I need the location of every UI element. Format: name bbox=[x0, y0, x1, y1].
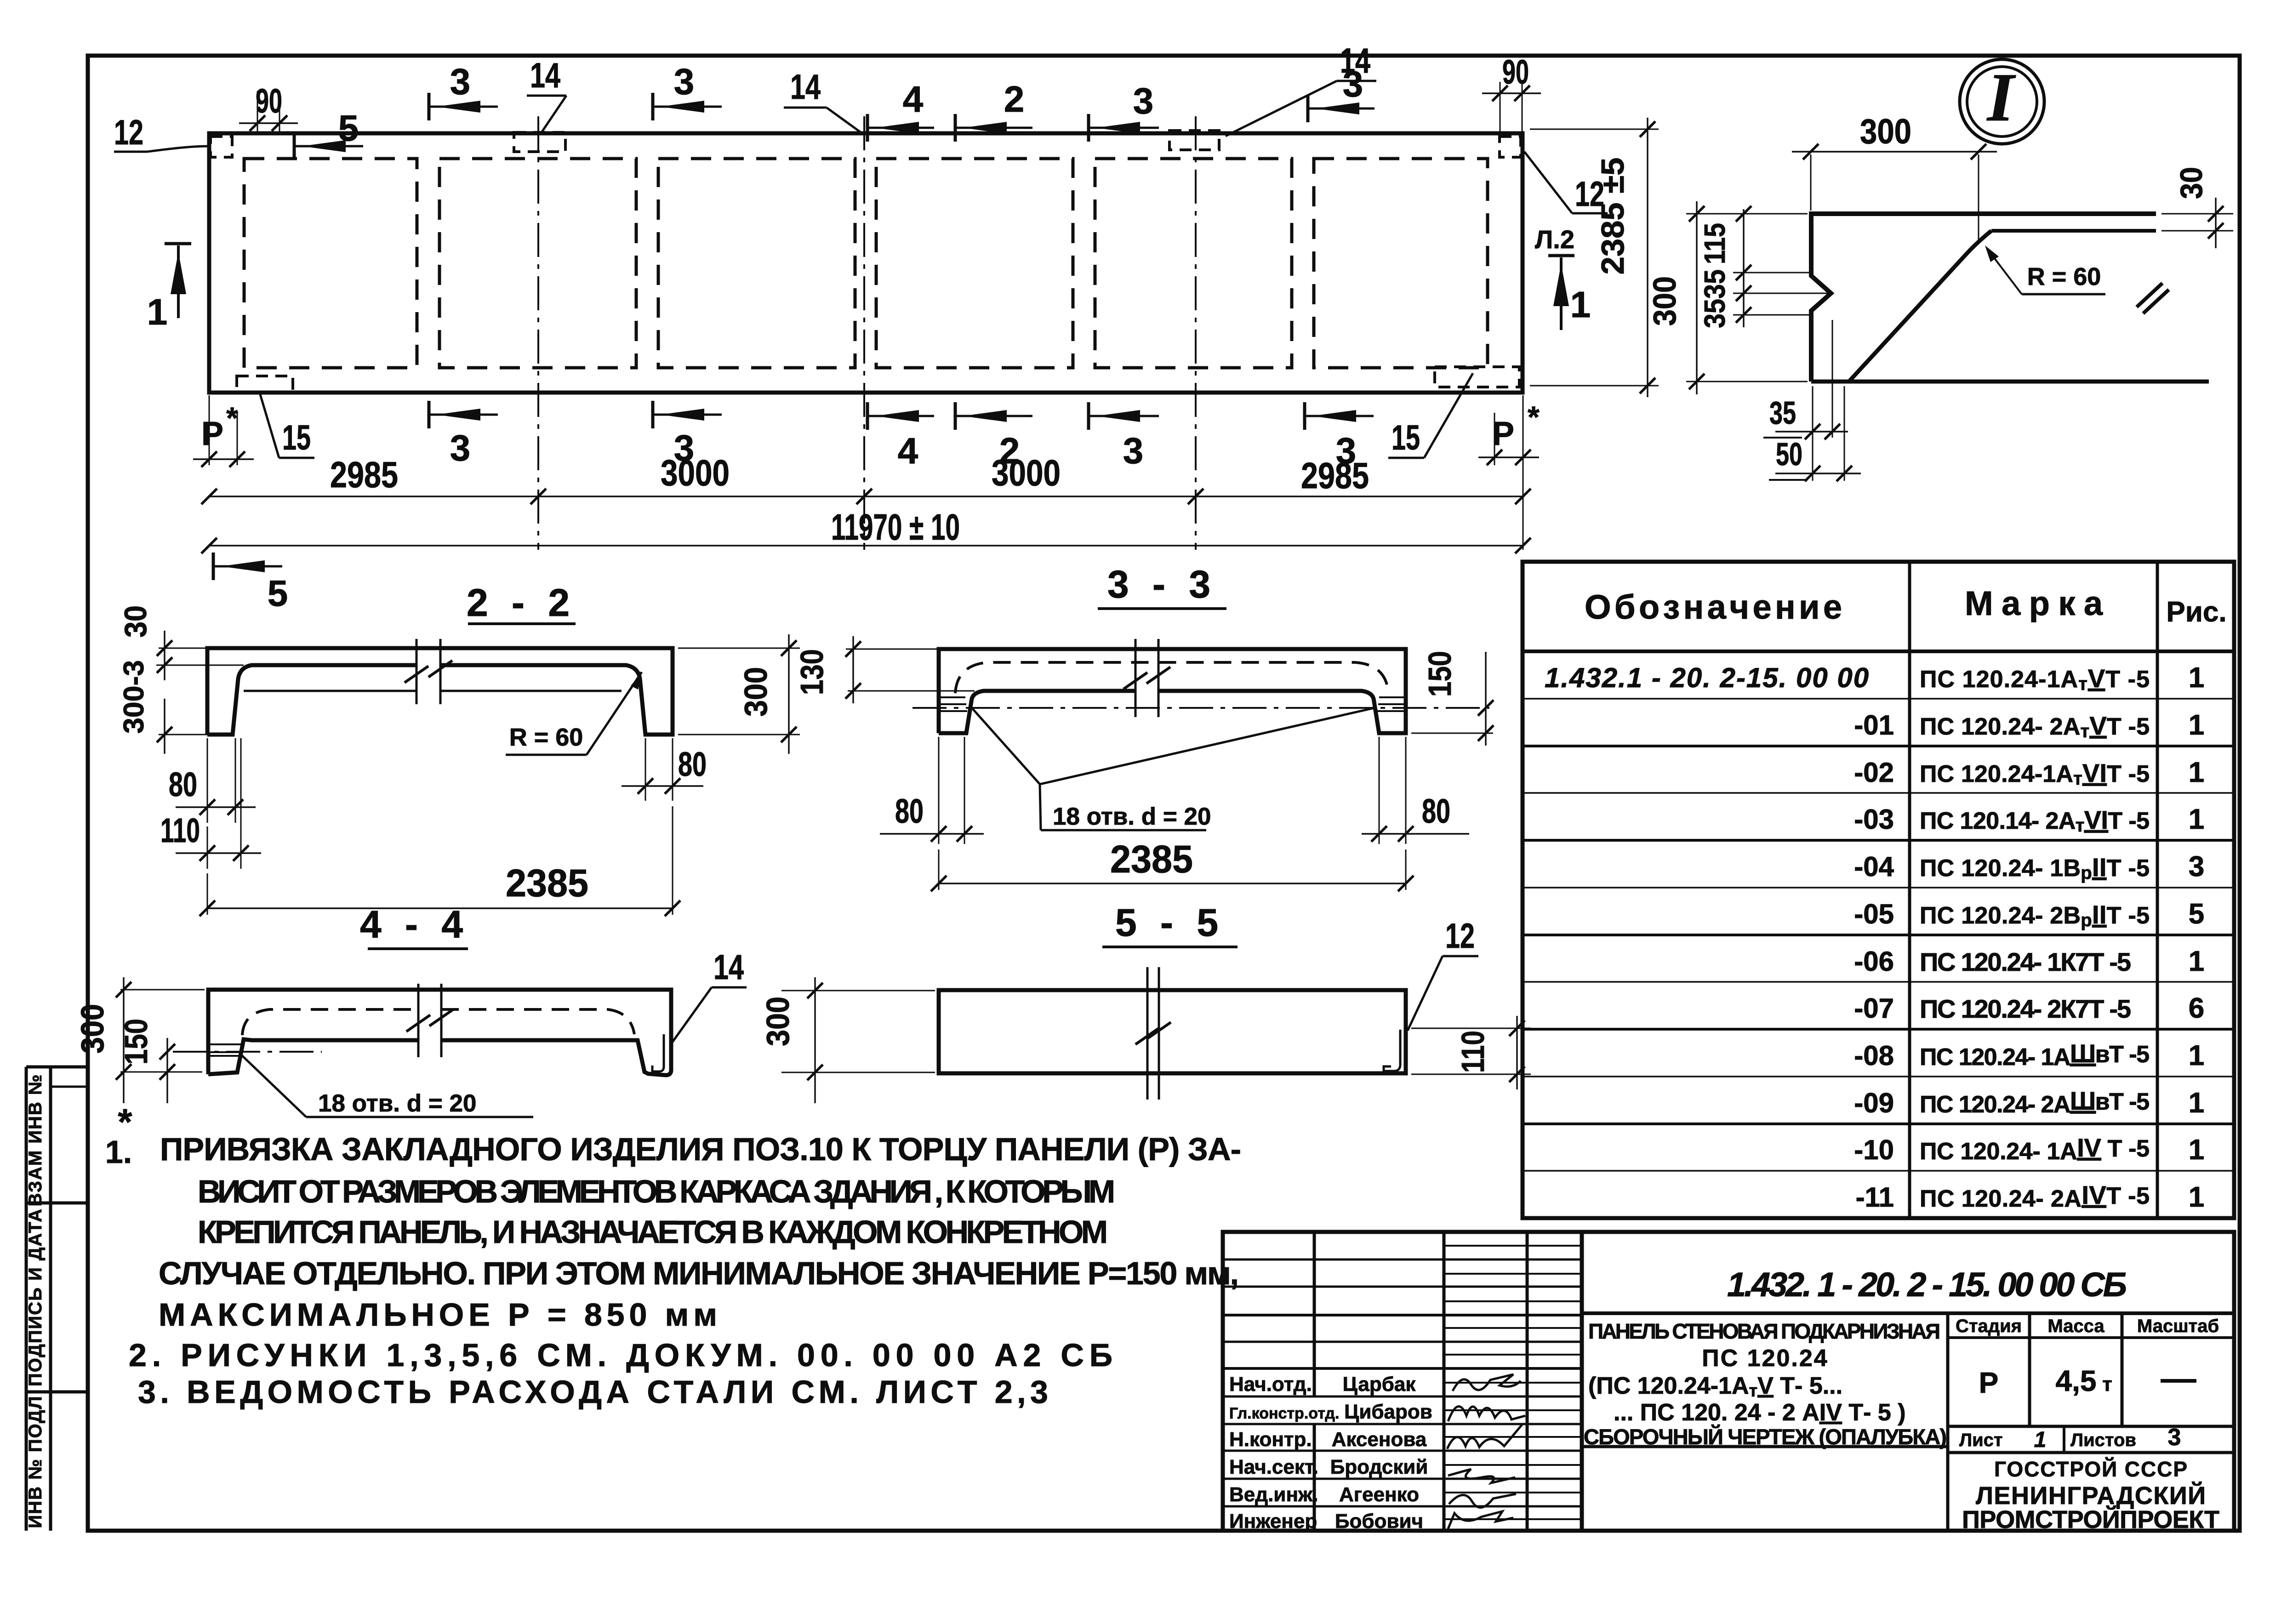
detail I dim 50 (bottom) bbox=[1844, 386, 1845, 481]
svg-text:Стадия: Стадия bbox=[1956, 1316, 2022, 1336]
svg-text:ПС 120.14- 2АтVIТ -5: ПС 120.14- 2АтVIТ -5 bbox=[1920, 805, 2150, 836]
table row separator 5 bbox=[1523, 887, 2234, 889]
section mark 3 #1 (top) bbox=[429, 93, 498, 120]
svg-text:18 отв. d = 20: 18 отв. d = 20 bbox=[1053, 803, 1211, 830]
section 2-2 profile bbox=[207, 648, 673, 735]
svg-text:КРЕПИТСЯ ПАНЕЛЬ, И НАЗНАЧАЕ: КРЕПИТСЯ ПАНЕЛЬ, И НАЗНАЧАЕТСЯ В КАЖДОМ … bbox=[198, 1214, 1108, 1250]
svg-text:2 - 2: 2 - 2 bbox=[467, 581, 576, 624]
2-2 slab underside line bbox=[244, 690, 416, 692]
svg-text:3 - 3: 3 - 3 bbox=[1107, 563, 1217, 606]
svg-text:2985: 2985 bbox=[1301, 455, 1369, 496]
svg-text:-02: -02 bbox=[1854, 757, 1894, 788]
4-4 pad lines bbox=[209, 1043, 241, 1045]
svg-text:ПС 120.24- 2ВрIIТ -5: ПС 120.24- 2ВрIIТ -5 bbox=[1920, 900, 2150, 930]
svg-text:Бродский: Бродский bbox=[1330, 1456, 1428, 1478]
svg-text:3: 3 bbox=[2168, 1424, 2181, 1451]
svg-text:300: 300 bbox=[74, 1004, 110, 1054]
detail I under-surface 30 line bbox=[1991, 229, 2156, 233]
5-5 corner anchor (pos.12) bbox=[1384, 1030, 1400, 1071]
svg-text:ЛЕНИНГРАДСКИЙ: ЛЕНИНГРАДСКИЙ bbox=[1976, 1482, 2206, 1510]
svg-text:3000: 3000 bbox=[992, 452, 1061, 493]
svg-text:Аксенова: Аксенова bbox=[1332, 1428, 1427, 1451]
svg-text:ПРИВЯЗКА ЗАКЛАДНОГО ИЗДЕЛИЯ: ПРИВЯЗКА ЗАКЛАДНОГО ИЗДЕЛИЯ ПОЗ.10 К ТОР… bbox=[160, 1131, 1241, 1167]
svg-text:R = 60: R = 60 bbox=[509, 724, 583, 751]
svg-text:Агеенко: Агеенко bbox=[1339, 1483, 1419, 1506]
svg-text:90: 90 bbox=[1502, 53, 1529, 91]
svg-text:1: 1 bbox=[2189, 1181, 2204, 1213]
svg-text:14: 14 bbox=[530, 56, 560, 95]
svg-text:1: 1 bbox=[2034, 1428, 2047, 1452]
svg-text:110: 110 bbox=[160, 811, 200, 849]
4-4 left dim 300 bbox=[120, 989, 205, 991]
section mark 3 #4 (bottom) bbox=[1305, 402, 1374, 430]
section arrow 1 (left side) bbox=[165, 242, 191, 245]
svg-text:ПС 120.24- 2АIVТ -5: ПС 120.24- 2АIVТ -5 bbox=[1920, 1180, 2150, 1212]
5-5 right dim 110 bbox=[1411, 1028, 1531, 1029]
svg-text:3. ВЕДОМОСТЬ РАСХОДА СТАЛИ: 3. ВЕДОМОСТЬ РАСХОДА СТАЛИ СМ. ЛИСТ 2,3 bbox=[138, 1374, 1048, 1410]
svg-text:80: 80 bbox=[895, 792, 924, 830]
svg-text:-06: -06 bbox=[1854, 946, 1894, 977]
svg-text:3: 3 bbox=[1343, 63, 1363, 104]
svg-text:-10: -10 bbox=[1854, 1134, 1894, 1165]
svg-text:ПС 120.24: ПС 120.24 bbox=[1702, 1345, 1828, 1372]
detail I slope with fillet R60 bbox=[1849, 231, 1991, 382]
svg-text:1: 1 bbox=[1570, 284, 1591, 325]
section mark 4 (top) bbox=[867, 114, 934, 142]
svg-text:Р: Р bbox=[1492, 416, 1514, 452]
opening 5 (dashed) bbox=[1095, 159, 1292, 368]
3-3 horizontal centerline bbox=[913, 707, 1489, 709]
svg-text:3000: 3000 bbox=[661, 452, 730, 493]
opening 6 (dashed) bbox=[1314, 159, 1488, 368]
svg-text:1: 1 bbox=[2189, 709, 2204, 741]
svg-text:3: 3 bbox=[450, 61, 471, 102]
table row separator 3 bbox=[1523, 792, 2234, 794]
svg-text:... ПС 120. 24 - 2 АIV Т- 5 ): ... ПС 120. 24 - 2 АIV Т- 5 ) bbox=[1614, 1399, 1906, 1426]
svg-text:ПС 120.24- 2АШвТ -5: ПС 120.24- 2АШвТ -5 bbox=[1920, 1086, 2150, 1118]
svg-text:30: 30 bbox=[2174, 167, 2209, 199]
svg-text:Л.2: Л.2 bbox=[1535, 225, 1574, 254]
svg-text:80: 80 bbox=[1422, 792, 1450, 830]
svg-text:1: 1 bbox=[2189, 946, 2204, 977]
signature grid half rows (sign/date columns) bbox=[1444, 1245, 1582, 1247]
opening 3 (dashed) bbox=[658, 159, 855, 368]
svg-text:ПС 120.24- 1К7Т -5: ПС 120.24- 1К7Т -5 bbox=[1920, 947, 2131, 976]
table row separator 11 bbox=[1523, 1170, 2234, 1172]
svg-text:300: 300 bbox=[738, 667, 774, 717]
table row separator 6 bbox=[1523, 934, 2234, 936]
embedded plate, top at centerline C (pos.14) bbox=[1169, 131, 1219, 150]
dim P* (bottom-right) bbox=[1494, 413, 1495, 465]
table row separator 4 bbox=[1523, 839, 2234, 842]
dimension 90 (top-left) bbox=[257, 91, 258, 134]
dim 300 between 2-2 and 3-3 bbox=[678, 648, 800, 649]
detail I dim 35 (bottom) bbox=[1812, 386, 1814, 481]
svg-text:1: 1 bbox=[2189, 1040, 2204, 1071]
svg-text:1: 1 bbox=[2189, 803, 2204, 835]
svg-text:115: 115 bbox=[1698, 223, 1731, 264]
svg-text:14: 14 bbox=[713, 948, 744, 987]
3-3 leg pad lines (right) bbox=[1379, 696, 1405, 698]
svg-text:1: 1 bbox=[2189, 662, 2204, 694]
svg-text:-07: -07 bbox=[1854, 993, 1894, 1024]
svg-text:3: 3 bbox=[1133, 80, 1154, 121]
svg-text:Царбак: Царбак bbox=[1343, 1373, 1416, 1396]
embedded plate, top-left corner (pos.12) bbox=[211, 137, 232, 157]
svg-text:I: I bbox=[1986, 59, 2016, 136]
3-3 leg pad lines (left) bbox=[940, 696, 965, 698]
svg-text:15: 15 bbox=[1392, 418, 1420, 457]
svg-text:5 - 5: 5 - 5 bbox=[1115, 901, 1225, 944]
svg-text:ИНВ № ПОДЛ: ИНВ № ПОДЛ bbox=[25, 1395, 46, 1528]
svg-text:3: 3 bbox=[2189, 851, 2204, 883]
svg-text:90: 90 bbox=[256, 82, 282, 120]
dimension row 11970±10 bbox=[209, 545, 1523, 546]
svg-text:ПС 120.24- 2АтVТ -5: ПС 120.24- 2АтVТ -5 bbox=[1920, 711, 2150, 741]
svg-text:ВЗАМ ИНВ №: ВЗАМ ИНВ № bbox=[25, 1074, 46, 1207]
4-4 channel anchor line (pos.14) bbox=[652, 1034, 664, 1071]
section mark 3 #2 (bottom) bbox=[653, 401, 722, 428]
svg-text:ПРОМСТРОЙПРОЕКТ: ПРОМСТРОЙПРОЕКТ bbox=[1962, 1505, 2219, 1533]
4-4 break symbol bbox=[417, 984, 420, 1057]
svg-text:3: 3 bbox=[674, 61, 695, 102]
embedded plate, top-right corner (pos.12) bbox=[1500, 137, 1521, 157]
svg-text:5: 5 bbox=[2189, 898, 2204, 930]
svg-text:Р: Р bbox=[201, 416, 223, 452]
3-3 break symbol bbox=[1135, 639, 1137, 717]
dim P* (bottom-left) bbox=[209, 395, 210, 465]
5-5 break symbol bbox=[1146, 967, 1149, 1100]
2-2 left dim 110 bbox=[240, 738, 242, 869]
svg-text:2385 ±5: 2385 ±5 bbox=[1595, 158, 1631, 275]
detail I bottom edge bbox=[1811, 380, 2209, 384]
2-2 dim 2385 bbox=[207, 873, 208, 915]
embedded plate, bottom-left (pos.15) bbox=[237, 376, 293, 393]
svg-text:т: т bbox=[2102, 1373, 2112, 1396]
svg-text:-03: -03 bbox=[1854, 804, 1894, 835]
svg-text:-04: -04 bbox=[1854, 851, 1894, 882]
svg-text:ПС 120.24-1АтVТ -5: ПС 120.24-1АтVТ -5 bbox=[1920, 664, 2150, 694]
svg-text:1: 1 bbox=[2189, 1087, 2204, 1119]
table row separator 9 bbox=[1523, 1076, 2234, 1077]
4-4 hidden dashed line bbox=[242, 1009, 418, 1035]
2-2 break symbol bbox=[416, 639, 418, 704]
centerline B (x=1880) bbox=[863, 116, 865, 550]
svg-text:1: 1 bbox=[2189, 757, 2204, 788]
svg-text:150: 150 bbox=[118, 1019, 154, 1065]
svg-text:50: 50 bbox=[1776, 436, 1802, 472]
svg-text:Нач.сект.: Нач.сект. bbox=[1229, 1456, 1318, 1478]
svg-text:Вед.инж.: Вед.инж. bbox=[1229, 1483, 1318, 1506]
detail I break slashes on right bbox=[2137, 283, 2162, 307]
svg-text:Гл.констр.отд.: Гл.констр.отд. bbox=[1229, 1405, 1339, 1422]
svg-text:*: * bbox=[1528, 400, 1540, 434]
svg-text:12: 12 bbox=[114, 113, 143, 152]
sheet row Лист/Листов bbox=[1948, 1425, 2234, 1428]
svg-text:R = 60: R = 60 bbox=[2027, 263, 2101, 291]
section mark 2 (top) bbox=[955, 114, 1032, 142]
svg-text:12: 12 bbox=[1445, 917, 1475, 956]
svg-text:ПС 120.24- 1ВрIIТ -5: ПС 120.24- 1ВрIIТ -5 bbox=[1920, 853, 2150, 883]
svg-text:-01: -01 bbox=[1854, 710, 1894, 741]
detail I top dim 300 bbox=[1810, 154, 1812, 211]
svg-text:11970 ± 10: 11970 ± 10 bbox=[831, 507, 960, 547]
svg-text:1: 1 bbox=[147, 291, 168, 332]
left margin inventory strip bbox=[25, 1067, 28, 1531]
opening 4 (dashed) bbox=[876, 159, 1073, 368]
3-3 left dim 80 bbox=[938, 737, 940, 844]
svg-text:-08: -08 bbox=[1854, 1040, 1894, 1071]
3-3 right dim 80 bbox=[1379, 737, 1380, 844]
svg-text:15: 15 bbox=[282, 418, 311, 457]
section 5-5 outline bbox=[939, 990, 1406, 1073]
panel outline (plan view) bbox=[209, 133, 1523, 393]
svg-text:ПС 120.24- 2К7Т -5: ПС 120.24- 2К7Т -5 bbox=[1920, 994, 2131, 1023]
svg-text:35: 35 bbox=[1698, 299, 1731, 328]
signatures (squiggles) bbox=[1453, 1374, 1521, 1391]
embedded plate, bottom-right (pos.15) bbox=[1435, 367, 1519, 387]
section mark 5 (top) bbox=[294, 132, 363, 160]
svg-text:4 - 4: 4 - 4 bbox=[360, 903, 469, 946]
svg-text:5: 5 bbox=[338, 108, 359, 148]
svg-text:2985: 2985 bbox=[330, 454, 398, 495]
2-2 left dim 30 bbox=[159, 648, 209, 649]
3-3 right dim 150 bbox=[1411, 733, 1493, 734]
main title divider bbox=[1580, 1232, 1584, 1531]
section 4-4 profile bbox=[208, 990, 671, 1075]
3-3 left dim 130 bbox=[846, 649, 939, 650]
svg-text:300-3: 300-3 bbox=[118, 660, 150, 734]
svg-text:2: 2 bbox=[1004, 79, 1025, 120]
table row separator 8 bbox=[1523, 1028, 2234, 1031]
svg-text:6: 6 bbox=[2189, 992, 2204, 1024]
table row separator 1 bbox=[1523, 698, 2234, 700]
opening 1 (dashed) bbox=[244, 159, 417, 368]
svg-text:СБОРОЧНЫЙ ЧЕРТЕЖ (ОПАЛУБКА): СБОРОЧНЫЙ ЧЕРТЕЖ (ОПАЛУБКА) bbox=[1584, 1425, 1947, 1449]
svg-text:Н.контр.: Н.контр. bbox=[1229, 1428, 1312, 1451]
2-2 left dim 80 bbox=[207, 738, 208, 823]
detail I profile bbox=[1811, 214, 2156, 382]
svg-text:80: 80 bbox=[678, 745, 707, 783]
section mark 5 (bottom) bbox=[213, 553, 282, 580]
svg-text:35: 35 bbox=[1698, 269, 1731, 299]
3-3 dim 2385 bbox=[938, 849, 940, 890]
svg-text:1: 1 bbox=[2189, 1134, 2204, 1166]
svg-text:Рис.: Рис. bbox=[2166, 596, 2226, 628]
section mark 3 #2 (top) bbox=[653, 93, 722, 120]
svg-text:2385: 2385 bbox=[1110, 838, 1193, 881]
svg-text:300: 300 bbox=[1647, 276, 1682, 326]
svg-text:ВИСИТ ОТ РАЗМЕРОВ ЭЛЕМЕНТОВ: ВИСИТ ОТ РАЗМЕРОВ ЭЛЕМЕНТОВ КАРКАСА ЗДАН… bbox=[198, 1174, 1115, 1209]
section mark 4 (bottom) bbox=[867, 402, 934, 430]
opening 2 (dashed) bbox=[439, 159, 636, 368]
svg-text:4,5: 4,5 bbox=[2056, 1364, 2097, 1397]
svg-text:3: 3 bbox=[450, 427, 471, 468]
title block signature grid verticals bbox=[1313, 1232, 1316, 1396]
detail I left dim 300 bbox=[1686, 213, 1808, 215]
svg-text:Нач.отд.: Нач.отд. bbox=[1229, 1373, 1312, 1396]
svg-text:1.432.1 - 20. 2-15. 00 00: 1.432.1 - 20. 2-15. 00 00 bbox=[1545, 662, 1870, 693]
svg-text:ПС 120.24- 1АIV Т -5: ПС 120.24- 1АIV Т -5 bbox=[1920, 1133, 2150, 1165]
3-3 holes leader 18 отв. d=20 bbox=[972, 708, 1040, 784]
svg-text:1.432. 1 - 20. 2 - 15. 00 00: 1.432. 1 - 20. 2 - 15. 00 00 СБ bbox=[1727, 1265, 2127, 1304]
svg-text:Лист: Лист bbox=[1959, 1430, 2003, 1450]
4-4 holes leader 18 отв. d=20 bbox=[241, 1054, 306, 1117]
plan right dim 2385±5 bbox=[1530, 129, 1659, 130]
svg-text:Инженер: Инженер bbox=[1229, 1510, 1317, 1533]
stage/mass/scale cells bbox=[2028, 1313, 2031, 1426]
3-3 hidden dashed top slab line bbox=[955, 662, 1388, 693]
shared dim 300 between 4-4 and 5-5 bbox=[781, 990, 935, 991]
centerline C (x=2601) bbox=[1195, 116, 1197, 550]
svg-text:Масса: Масса bbox=[2047, 1316, 2104, 1336]
svg-text:2385: 2385 bbox=[506, 861, 588, 905]
svg-text:130: 130 bbox=[794, 649, 830, 695]
svg-text:35: 35 bbox=[1769, 395, 1796, 431]
svg-text:2. РИСУНКИ 1,3,5,6 СМ. ДОК: 2. РИСУНКИ 1,3,5,6 СМ. ДОКУМ. 00. 00 00 … bbox=[129, 1337, 1112, 1373]
centerline A (x=1171) bbox=[537, 116, 539, 550]
svg-text:3: 3 bbox=[1123, 430, 1144, 471]
table row separator 10 bbox=[1523, 1123, 2234, 1125]
svg-text:ПАНЕЛЬ СТЕНОВАЯ ПОДКАРНИЗНАЯ: ПАНЕЛЬ СТЕНОВАЯ ПОДКАРНИЗНАЯ bbox=[1588, 1319, 1940, 1343]
svg-text:4: 4 bbox=[903, 79, 924, 120]
svg-text:(ПС 120.24-1АтV Т- 5...: (ПС 120.24-1АтV Т- 5... bbox=[1588, 1373, 1842, 1401]
svg-text:30: 30 bbox=[118, 605, 153, 638]
svg-text:-09: -09 bbox=[1854, 1088, 1894, 1118]
svg-text:ПОДПИСЬ И ДАТА: ПОДПИСЬ И ДАТА bbox=[25, 1208, 46, 1386]
svg-text:Бобович: Бобович bbox=[1335, 1510, 1423, 1533]
svg-text:110: 110 bbox=[1455, 1031, 1491, 1073]
4-4 centerline bbox=[173, 1051, 322, 1053]
svg-text:-11: -11 bbox=[1856, 1182, 1894, 1213]
document number cell bbox=[1582, 1311, 2234, 1315]
dimension row 2985|3000|3000|2985 bbox=[209, 496, 1523, 497]
detail I dim 30 (right) bbox=[2162, 213, 2233, 215]
2-2 left dim 300-3 bbox=[159, 734, 209, 735]
svg-text:5: 5 bbox=[268, 573, 288, 614]
svg-text:4: 4 bbox=[898, 430, 918, 471]
embedded plate, top at centerline A (pos.14) bbox=[514, 132, 565, 152]
svg-text:18 отв. d = 20: 18 отв. d = 20 bbox=[318, 1090, 476, 1117]
title text cell bbox=[1946, 1313, 1950, 1531]
svg-text:1.: 1. bbox=[105, 1134, 132, 1170]
svg-text:-05: -05 bbox=[1854, 899, 1894, 929]
2-2 right dim 80 bbox=[645, 738, 646, 801]
svg-text:14: 14 bbox=[790, 68, 821, 107]
detail I callout circle bbox=[1960, 59, 2044, 144]
svg-text:Листов: Листов bbox=[2070, 1430, 2136, 1450]
svg-text:300: 300 bbox=[760, 997, 796, 1046]
section 3-3 outline bbox=[939, 649, 1406, 733]
signature grid full rows bbox=[1223, 1259, 1582, 1261]
svg-text:ПС 120.24- 1АШвТ -5: ПС 120.24- 1АШвТ -5 bbox=[1920, 1039, 2150, 1071]
section mark 2 (bottom) bbox=[955, 402, 1032, 430]
svg-text:Масштаб: Масштаб bbox=[2137, 1316, 2219, 1336]
svg-text:150: 150 bbox=[1422, 651, 1458, 697]
svg-text:Цибаров: Цибаров bbox=[1344, 1401, 1432, 1423]
svg-text:Р: Р bbox=[1979, 1366, 1999, 1399]
dimension 90 (top-right) bbox=[1500, 82, 1501, 134]
section mark 3 #1 (bottom) bbox=[429, 401, 498, 428]
table row separator 2 bbox=[1523, 745, 2234, 747]
detail I sub-dims 115/35/35 bbox=[1733, 272, 1814, 274]
title block outline bbox=[1223, 1232, 2234, 1531]
parts table (Обозначение / Марка / Рис.) bbox=[1523, 562, 2234, 1218]
section mark 3 #3 (bottom) bbox=[1089, 402, 1159, 430]
table row separator 7 bbox=[1523, 981, 2234, 983]
svg-text:80: 80 bbox=[169, 765, 197, 803]
svg-text:300: 300 bbox=[1860, 112, 1911, 151]
section mark 3 #4 (top) bbox=[1308, 95, 1374, 122]
svg-text:*: * bbox=[226, 401, 238, 435]
svg-text:ПС 120.24-1АтVIТ -5: ПС 120.24-1АтVIТ -5 bbox=[1920, 758, 2150, 789]
svg-text:М а р к а: М а р к а bbox=[1965, 584, 2103, 622]
svg-text:О б о з н а ч е н и е: О б о з н а ч е н и е bbox=[1585, 588, 1842, 626]
svg-text:ГОССТРОЙ СССР: ГОССТРОЙ СССР bbox=[1994, 1457, 2187, 1481]
svg-text:СЛУЧАЕ ОТДЕЛЬНО. ПРИ ЭТОМ: СЛУЧАЕ ОТДЕЛЬНО. ПРИ ЭТОМ МИНИМАЛЬНОЕ ЗН… bbox=[159, 1255, 1239, 1291]
section mark 3 #3 (top) bbox=[1089, 114, 1159, 142]
4-4 left dim 150 bbox=[166, 1038, 168, 1103]
